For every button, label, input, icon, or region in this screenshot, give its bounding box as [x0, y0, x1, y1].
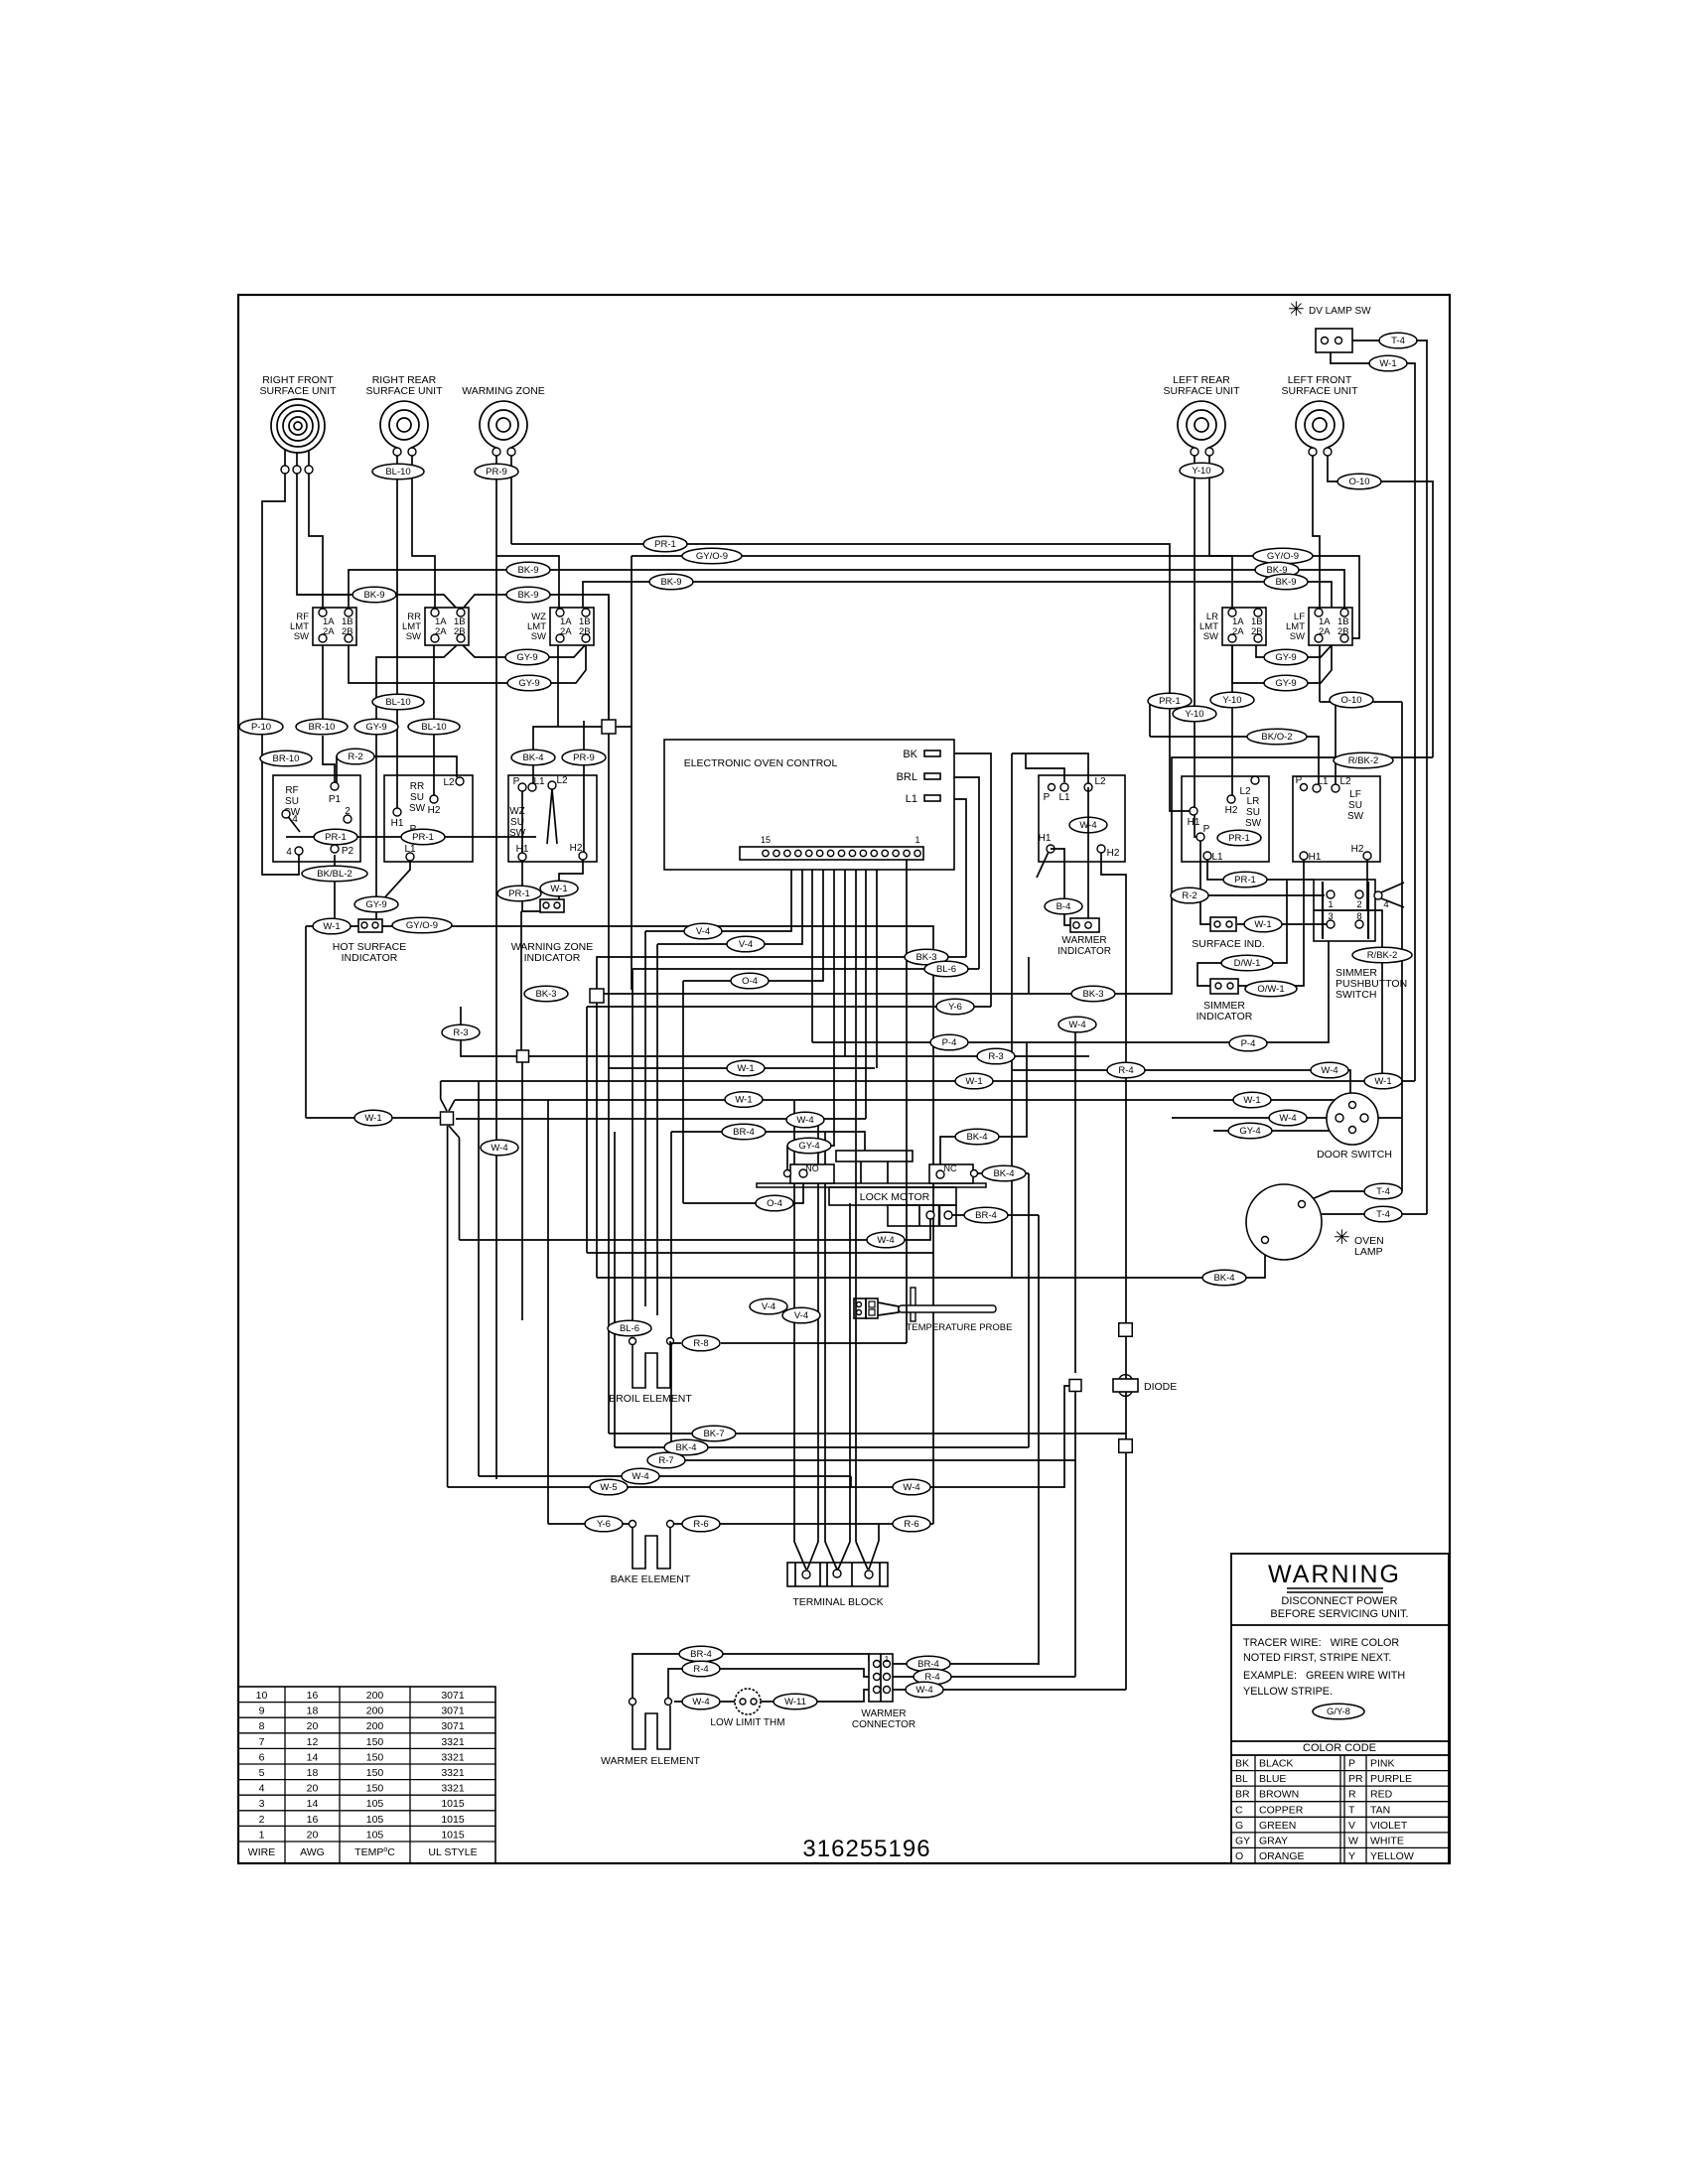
terminal wzi 2 — [554, 902, 560, 908]
oval G/Y-8 example — [1313, 1704, 1364, 1719]
wire label W-1 — [540, 881, 578, 896]
terminal hsi 2 — [372, 922, 378, 928]
svg-text:O-10: O-10 — [1348, 477, 1369, 487]
svg-text:CONNECTOR: CONNECTOR — [852, 1719, 915, 1730]
wire tb fan 1b — [807, 1119, 818, 1570]
simmer actuator diag b — [1381, 898, 1404, 907]
wire label W-4 — [906, 1682, 943, 1698]
terminal P1 — [331, 782, 339, 790]
svg-text:BAKE ELEMENT: BAKE ELEMENT — [611, 1573, 691, 1585]
terminal EOC pin 11 — [806, 850, 812, 856]
wire label BK-4 — [955, 1129, 999, 1145]
terminal smi 1 — [1215, 983, 1221, 989]
wire label BK-4 — [1202, 1270, 1246, 1286]
svg-text:P: P — [1203, 824, 1210, 835]
svg-text:H2: H2 — [1225, 805, 1238, 816]
terminal LF L2 — [1332, 784, 1339, 792]
svg-text:BL-10: BL-10 — [385, 467, 410, 478]
lock motor bar — [757, 1183, 986, 1187]
svg-text:BK-3: BK-3 — [535, 989, 556, 1000]
svg-text:1: 1 — [1328, 899, 1333, 910]
wire label W-4 — [786, 1112, 824, 1128]
svg-text:SURFACE UNIT: SURFACE UNIT — [1163, 385, 1240, 397]
terminal LR H2 — [1227, 795, 1235, 803]
wire label W-1 — [1233, 1092, 1271, 1108]
svg-text:WARMER ELEMENT: WARMER ELEMENT — [601, 1755, 701, 1767]
wire tb fan 1a — [794, 1100, 806, 1570]
wire label GY-4 — [787, 1138, 831, 1154]
svg-text:18: 18 — [307, 1767, 319, 1779]
wire label BK-9 — [649, 574, 693, 590]
svg-text:SWITCH: SWITCH — [1336, 989, 1376, 1001]
wire label Y-6 — [585, 1516, 623, 1532]
wire x1083 upper — [1074, 1024, 1076, 1373]
svg-text:O-10: O-10 — [1340, 695, 1361, 706]
svg-text:18: 18 — [307, 1706, 319, 1717]
wire PR-1 left link — [342, 836, 403, 838]
wire label PR-1 — [497, 886, 541, 901]
wire label PR-1 — [643, 536, 687, 552]
wire x619 bundle — [614, 1132, 616, 1447]
color code row line 1 — [1231, 1770, 1449, 1772]
svg-text:2B: 2B — [1337, 626, 1349, 637]
svg-text:3321: 3321 — [441, 1767, 465, 1779]
svg-text:8: 8 — [1356, 911, 1361, 922]
svg-text:3071: 3071 — [441, 1706, 465, 1717]
terminal si 2 — [1226, 921, 1232, 927]
oval W-4 warmer — [1069, 817, 1107, 833]
svg-text:105: 105 — [366, 1814, 384, 1826]
wire W-4 connector right — [893, 1689, 1126, 1691]
bake element — [633, 1528, 670, 1569]
svg-text:BLUE: BLUE — [1259, 1773, 1286, 1785]
probe rod — [899, 1305, 996, 1312]
terminal block — [787, 1563, 888, 1586]
wire label T-4 — [1379, 333, 1417, 348]
connector strip EOC — [740, 847, 923, 860]
wire label GY/O-9 — [392, 917, 452, 933]
wire BR-4 right drop — [1038, 1215, 1040, 1665]
svg-text:C: C — [1235, 1804, 1243, 1816]
svg-text:20: 20 — [307, 1829, 319, 1841]
color code row line 2 — [1231, 1785, 1449, 1787]
wire low limit right — [759, 1690, 869, 1702]
wire label BK/O-2 — [1247, 729, 1307, 745]
terminal LR t1 — [1191, 448, 1198, 456]
wire WZ P to H1 — [521, 791, 523, 853]
terminal simmer 2 — [1355, 890, 1363, 898]
svg-text:W-1: W-1 — [1379, 358, 1396, 369]
wire LF 2A down O-10 — [1319, 645, 1321, 702]
terminal smi 2 — [1227, 983, 1233, 989]
terminal NC — [936, 1170, 944, 1178]
wire S1 right — [616, 726, 632, 728]
wire label GY-9 — [505, 649, 549, 665]
wire W-1b line 1108 — [455, 1099, 1352, 1101]
color code divider bottom — [1231, 1754, 1449, 1756]
svg-text:L1: L1 — [1058, 792, 1070, 803]
lock motor lower divider2 — [938, 1205, 940, 1226]
warning box — [1231, 1554, 1449, 1863]
wire R-2 simmer line — [1172, 894, 1325, 896]
warmer conn right pin 1 — [884, 1661, 891, 1668]
terminal LF t2 — [1324, 448, 1332, 456]
limit switch RR LMT SW — [402, 608, 469, 645]
wire T-4 lamp line2 — [1322, 1213, 1427, 1215]
svg-text:✳: ✳ — [1288, 299, 1305, 321]
svg-text:150: 150 — [366, 1751, 384, 1763]
terminal EOC pin 14 — [774, 850, 779, 856]
color code row line 6 — [1231, 1846, 1449, 1848]
wire x462 down to W-4 line — [459, 1138, 461, 1240]
svg-text:BL: BL — [1235, 1773, 1248, 1785]
svg-text:SURFACE UNIT: SURFACE UNIT — [1281, 385, 1358, 397]
terminal bake b — [667, 1521, 674, 1528]
wire O-4 line — [683, 1177, 803, 1203]
coil WZ warming zone — [480, 401, 527, 448]
terminal RF t1 — [281, 466, 289, 474]
wire label BK-9 — [1264, 574, 1308, 590]
svg-text:L2: L2 — [1339, 776, 1351, 787]
wire W-4 right line — [850, 1476, 852, 1487]
svg-text:V-4: V-4 — [762, 1301, 775, 1312]
svg-text:W-1: W-1 — [1374, 1076, 1391, 1087]
wire LR P to surface ind — [1200, 841, 1210, 924]
terminal EOC pin 6 — [860, 850, 866, 856]
wire label BL-10 — [372, 694, 424, 710]
wire D/W-1 net — [1197, 880, 1287, 986]
junction S3 — [441, 1112, 454, 1125]
wire GY-9 lower — [349, 645, 586, 683]
terminal motor a — [926, 1211, 934, 1219]
wire DV lamp to T-4 — [1352, 341, 1427, 1214]
wire label PR-1 — [1217, 830, 1261, 846]
wire R-3 line — [461, 1026, 1089, 1056]
wire label BK-3 — [524, 986, 568, 1002]
svg-text:P: P — [1296, 775, 1303, 786]
wire Y-10 down to LR P — [1195, 722, 1196, 837]
wire vertical x636 from GY/O-9 bus — [631, 556, 633, 990]
wire RF sw internal — [286, 836, 330, 838]
wire pin W-4 drop — [865, 860, 867, 1119]
wire GY-4 door line — [1213, 1129, 1349, 1131]
wire RR 2A down to H2 — [433, 645, 435, 795]
svg-text:W-4: W-4 — [915, 1685, 932, 1696]
wire label T-4 — [1364, 1183, 1402, 1199]
low limit pin a — [740, 1699, 746, 1705]
svg-text:T: T — [1348, 1804, 1355, 1816]
wire label PR-1 — [1148, 693, 1192, 709]
wire table row 9 — [238, 1825, 495, 1827]
wire gauge table — [238, 1687, 495, 1863]
wire x613 down to BK-7 — [608, 734, 610, 1433]
svg-text:H2: H2 — [570, 843, 583, 854]
svg-text:W: W — [1348, 1835, 1358, 1846]
terminal WZ t1 — [492, 448, 500, 456]
svg-text:V-4: V-4 — [739, 939, 753, 950]
svg-text:PR-1: PR-1 — [508, 888, 530, 899]
wire label V-4 — [750, 1298, 787, 1314]
indicator surface — [1210, 917, 1236, 931]
switch NO — [790, 1164, 834, 1183]
tb divider 2 — [819, 1563, 821, 1586]
svg-text:WHITE: WHITE — [1370, 1835, 1404, 1846]
svg-text:GY/O-9: GY/O-9 — [696, 551, 728, 562]
terminal EOC pin 1 — [914, 850, 920, 856]
diode dome top — [1119, 1375, 1132, 1379]
terminal DV lamp 1 — [1322, 338, 1329, 344]
svg-text:3321: 3321 — [441, 1783, 465, 1795]
switch simmer pushbutton — [1314, 880, 1375, 941]
wire label GY-9 — [1264, 675, 1308, 691]
svg-text:GREEN: GREEN — [1259, 1820, 1296, 1832]
color code row line 5 — [1231, 1832, 1449, 1834]
svg-text:W-1: W-1 — [323, 921, 340, 932]
svg-text:LOW LIMIT THM: LOW LIMIT THM — [710, 1717, 784, 1728]
switch RF SU SW — [273, 775, 360, 862]
svg-text:BK-9: BK-9 — [363, 590, 384, 601]
wire label R-7 — [647, 1452, 685, 1468]
wire LF t2 O-10 right — [1328, 456, 1433, 757]
wire 1262 line — [587, 1252, 933, 1254]
wire PR-9 drop to WZ H2 — [583, 721, 585, 852]
terminal wsw P — [1049, 784, 1055, 791]
wire label BR-10 — [260, 751, 312, 766]
wire label BK-7 — [692, 1426, 736, 1441]
wire S3 bottom diag — [449, 1126, 460, 1138]
svg-text:BR-10: BR-10 — [309, 722, 336, 733]
terminal wsw L1 — [1060, 783, 1068, 791]
wire R-6 bake line — [674, 1523, 879, 1525]
diode body — [1113, 1379, 1138, 1392]
wire table col 287 — [284, 1687, 286, 1863]
wire WZ H1 PR-1 to ind — [522, 900, 545, 911]
lock motor lower — [888, 1205, 956, 1226]
svg-text:BL-6: BL-6 — [936, 964, 956, 975]
warmer conn left pin 1 — [874, 1661, 881, 1668]
pad BK — [924, 751, 940, 756]
svg-text:W-4: W-4 — [491, 1143, 507, 1154]
wire L1 pad out — [940, 799, 966, 957]
svg-text:P-4: P-4 — [942, 1037, 957, 1048]
wire label W-4 — [1269, 1110, 1307, 1126]
wire LR 2A down Y-10 to H2 — [1231, 645, 1233, 795]
wire GY-9 right lower — [1232, 645, 1332, 683]
wire pin P-4 drop — [811, 860, 813, 1042]
wire label W-4 — [867, 1232, 905, 1248]
wire O-10 run — [1320, 701, 1402, 703]
wire BK-9 lower left — [297, 595, 457, 609]
svg-text:SURFACE UNIT: SURFACE UNIT — [259, 385, 337, 397]
terminal 2 — [344, 815, 352, 823]
terminal wsw H2 — [1097, 845, 1105, 853]
svg-text:105: 105 — [366, 1829, 384, 1841]
svg-text:B-4: B-4 — [1056, 901, 1071, 912]
wire S1 up — [608, 595, 610, 721]
wire R-4 line — [1012, 1070, 1350, 1096]
svg-text:1015: 1015 — [441, 1829, 465, 1841]
wire S3 straight down W-5 — [447, 1126, 449, 1487]
svg-text:15: 15 — [761, 835, 771, 845]
terminal EOC pin 2 — [904, 850, 910, 856]
svg-text:W-5: W-5 — [600, 1482, 617, 1493]
svg-text:BROWN: BROWN — [1259, 1789, 1299, 1801]
terminal LR L2 — [1251, 776, 1259, 784]
wire label GY-9 — [354, 719, 398, 735]
indicator warmer — [1070, 918, 1099, 932]
terminal door bottom — [1349, 1127, 1356, 1134]
svg-text:RRSUSW: RRSUSW — [409, 781, 426, 814]
simmer sw mid divider — [1314, 909, 1375, 911]
svg-text:L2: L2 — [556, 775, 568, 786]
svg-text:TERMINAL BLOCK: TERMINAL BLOCK — [792, 1596, 883, 1608]
wire P-4 line — [812, 941, 1329, 1042]
svg-text:105: 105 — [366, 1798, 384, 1810]
wire label V-4 — [782, 1307, 820, 1323]
svg-text:UL STYLE: UL STYLE — [428, 1846, 477, 1858]
terminal WZ H2 — [579, 852, 587, 860]
wire x552 bundle — [547, 1100, 549, 1524]
terminal tb 1 — [802, 1570, 810, 1578]
wire label R/BK-2 — [1334, 752, 1393, 768]
coil LF surface unit — [1296, 401, 1343, 448]
warmer conn left pin 2 — [874, 1674, 881, 1681]
svg-text:W-4: W-4 — [692, 1697, 709, 1707]
svg-text:3071: 3071 — [441, 1690, 465, 1702]
svg-text:BR-4: BR-4 — [733, 1127, 755, 1138]
tb divider 5 — [879, 1563, 881, 1586]
electronic oven control box — [664, 740, 954, 870]
svg-text:PR: PR — [1348, 1773, 1363, 1785]
terminal WZ L1 — [528, 783, 536, 791]
svg-text:W-4: W-4 — [1068, 1020, 1085, 1030]
warning underline a — [1287, 1587, 1383, 1589]
wire table row 3 — [238, 1732, 495, 1734]
wire tb fan 3a — [856, 1542, 868, 1570]
wire label W-4 — [682, 1694, 720, 1709]
svg-text:ORANGE: ORANGE — [1259, 1850, 1305, 1862]
svg-text:1: 1 — [914, 835, 919, 845]
svg-text:1: 1 — [259, 1829, 265, 1841]
svg-text:GY/O-9: GY/O-9 — [1267, 551, 1299, 562]
wire diode bottom — [1125, 1452, 1127, 1690]
svg-text:SW: SW — [531, 631, 546, 642]
terminal warmer a — [630, 1699, 636, 1706]
svg-text:V-4: V-4 — [696, 926, 710, 937]
svg-text:BL-10: BL-10 — [385, 697, 410, 708]
svg-text:R-4: R-4 — [693, 1664, 708, 1675]
svg-text:Y-10: Y-10 — [1192, 466, 1210, 477]
wire R-6 right line — [878, 1524, 880, 1541]
wire diode mid2 — [1125, 1392, 1127, 1439]
svg-text:GY-9: GY-9 — [365, 899, 386, 910]
svg-text:AWG: AWG — [300, 1846, 325, 1858]
wire x688 down — [682, 981, 684, 1203]
svg-text:R-2: R-2 — [1182, 890, 1196, 901]
wire label BR-4 — [679, 1646, 723, 1662]
svg-text:BK-4: BK-4 — [522, 752, 543, 763]
wire label GY-4 — [1228, 1123, 1272, 1139]
pad L1 — [924, 795, 940, 801]
svg-text:W-1: W-1 — [550, 884, 567, 894]
svg-text:BL-10: BL-10 — [421, 722, 446, 733]
terminal WZ L2 — [548, 781, 556, 789]
probe pin sq 2 — [869, 1309, 875, 1315]
wire RR L1 diag — [376, 861, 410, 904]
wire PR-9 branch to WZ 1A — [496, 556, 559, 608]
wire table row 1 — [238, 1702, 495, 1704]
wire W-4 1498 right — [851, 1386, 1069, 1487]
svg-text:BL-6: BL-6 — [620, 1323, 639, 1334]
wire GY-9 vert lower — [375, 911, 377, 926]
wire wsw L1 up — [1026, 753, 1064, 782]
svg-text:316255196: 316255196 — [802, 1836, 930, 1862]
lock motor stem b — [887, 1161, 889, 1183]
wire label Y-10 — [1210, 692, 1254, 708]
wire x591 to 1262 — [586, 1007, 588, 1253]
svg-text:3321: 3321 — [441, 1751, 465, 1763]
lock motor lower divider — [918, 1205, 920, 1226]
indicator simmer — [1210, 979, 1238, 994]
svg-text:TRACER WIRE: WIRE COLOR: TRACER WIRE: WIRE COLOR — [1243, 1637, 1399, 1649]
svg-text:✳: ✳ — [1334, 1227, 1350, 1249]
svg-text:TEMPoC: TEMPoC — [354, 1846, 395, 1858]
wire table row 2 — [238, 1716, 495, 1718]
svg-text:EXAMPLE: GREEN WIRE WITH: EXAMPLE: GREEN WIRE WITH — [1243, 1670, 1405, 1682]
svg-text:W-4: W-4 — [796, 1115, 813, 1126]
wire label R-2 — [337, 749, 374, 764]
svg-text:3: 3 — [259, 1798, 265, 1810]
svg-text:2: 2 — [345, 806, 351, 817]
terminal LF t1 — [1309, 448, 1317, 456]
wire RF coil lead 3 — [308, 450, 310, 466]
svg-text:Y-6: Y-6 — [948, 1002, 962, 1013]
wire label BR-4 — [907, 1656, 950, 1672]
wire label W-4 — [1058, 1017, 1096, 1032]
wire label O-10 — [1330, 692, 1373, 708]
svg-text:150: 150 — [366, 1736, 384, 1748]
svg-text:4: 4 — [259, 1783, 265, 1795]
terminal simmer 8 — [1355, 920, 1363, 928]
svg-text:COPPER: COPPER — [1259, 1804, 1304, 1816]
terminal EOC pin 4 — [882, 850, 888, 856]
terminal EOC pin 12 — [795, 850, 801, 856]
svg-text:W-1: W-1 — [965, 1076, 982, 1087]
terminal RR H2 — [430, 795, 438, 803]
svg-text:GY-9: GY-9 — [518, 678, 539, 689]
svg-text:GY-9: GY-9 — [365, 722, 386, 733]
wire BR-4 conn right — [893, 1663, 1039, 1665]
terminal wsw H1 — [1047, 845, 1055, 853]
wire x637 broil drop — [632, 969, 633, 1335]
svg-text:PR-9: PR-9 — [486, 467, 507, 478]
svg-text:L2: L2 — [1239, 786, 1251, 797]
wire label R-3 — [977, 1048, 1015, 1064]
wire label R-6 — [893, 1516, 930, 1532]
svg-text:2A: 2A — [560, 626, 572, 637]
wire BK-9 bus B — [583, 582, 1342, 613]
wire R-4 connector line — [893, 1676, 1075, 1678]
wire warmer BR-4 line — [633, 1654, 869, 1698]
svg-text:GY: GY — [1235, 1835, 1250, 1846]
wire W-4 1249 left — [460, 1239, 887, 1241]
wire warmer R-4 line — [668, 1669, 869, 1698]
svg-text:R-8: R-8 — [693, 1338, 708, 1349]
svg-text:T-4: T-4 — [1376, 1209, 1390, 1220]
wire table row 4 — [238, 1747, 495, 1749]
wire label P-4 — [1229, 1035, 1267, 1051]
wire pin 862 drop to terminal block — [855, 860, 857, 1542]
